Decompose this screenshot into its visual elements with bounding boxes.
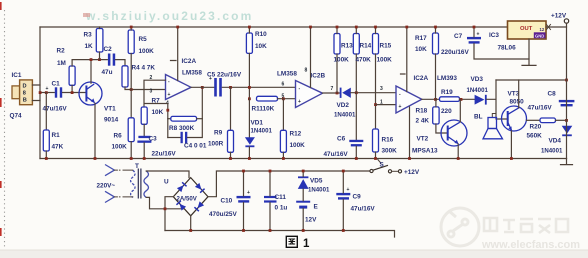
svg-text:VD1: VD1 — [251, 120, 264, 127]
svg-text:R12: R12 — [290, 131, 302, 138]
svg-text:10K: 10K — [152, 109, 164, 116]
transformer primary leads — [127, 170, 133, 197]
capacitor C8 — [559, 100, 575, 107]
svg-text:100K: 100K — [112, 144, 128, 151]
svg-text:100K: 100K — [139, 48, 155, 55]
resistor R15 — [373, 34, 379, 55]
wire R1 to ground — [45, 151, 47, 159]
capacitor C3 — [137, 136, 151, 143]
svg-text:47u/16V: 47u/16V — [351, 206, 376, 213]
node left corner path — [164, 207, 167, 210]
wire C6 ground — [355, 146, 357, 158]
node R15 top — [374, 26, 377, 29]
watermark logo circle bottom right — [441, 208, 479, 246]
svg-text:+: + — [347, 187, 350, 193]
svg-text:VT1: VT1 — [104, 106, 116, 113]
svg-text:E: E — [314, 204, 319, 211]
wire VD2 to comparator — [351, 92, 396, 94]
node E bottom — [302, 229, 305, 232]
node distribution right — [565, 79, 568, 82]
svg-text:LM393: LM393 — [437, 75, 457, 82]
wire bridge bottom corner — [190, 216, 192, 231]
wire R18 legs — [436, 99, 448, 133]
IC1 output stubs — [32, 85, 40, 101]
svg-text:R6: R6 — [114, 133, 123, 140]
regulator IC3 — [508, 21, 547, 39]
wire secondary bottom — [146, 197, 183, 208]
node R13 top — [336, 26, 339, 29]
svg-text:B: B — [23, 98, 27, 104]
resistor R14 — [353, 34, 359, 55]
svg-text:IC2A: IC2A — [182, 58, 197, 65]
svg-text:47u/16V: 47u/16V — [528, 105, 553, 112]
capacitor C2 — [108, 54, 115, 66]
svg-text:R20: R20 — [530, 124, 542, 131]
svg-text:IC1: IC1 — [12, 72, 22, 79]
svg-text:R14: R14 — [360, 43, 372, 50]
wire C1 to VT1 base — [63, 92, 87, 94]
wire to R1 — [45, 93, 47, 131]
svg-text:+: + — [247, 190, 250, 196]
node IC2A V+ rail — [176, 26, 179, 29]
svg-text:R10: R10 — [255, 31, 267, 38]
svg-text:IC2A: IC2A — [414, 75, 429, 82]
svg-text:C4 0 01: C4 0 01 — [184, 143, 207, 150]
node C3 ground — [143, 157, 146, 160]
resistor R12 — [280, 130, 286, 152]
svg-text:+: + — [46, 86, 49, 92]
transistor VT3 — [502, 106, 527, 131]
wire VD1 ground — [248, 147, 250, 159]
svg-text:Q74: Q74 — [10, 113, 23, 120]
svg-text:T: T — [135, 163, 139, 170]
svg-text:47u: 47u — [102, 69, 113, 76]
mains prong top — [105, 165, 114, 176]
svg-text:470K: 470K — [356, 57, 372, 64]
node collector junction — [90, 58, 93, 61]
bridge diode top-left — [177, 182, 187, 192]
capacitor C11 — [264, 196, 277, 203]
capacitor C5 — [209, 76, 222, 97]
wire C3 to ground — [143, 143, 145, 159]
svg-text:47u/16V: 47u/16V — [324, 151, 349, 158]
node divider tap — [374, 103, 377, 106]
node R2 base — [71, 91, 74, 94]
svg-text:2 4K: 2 4K — [416, 118, 430, 125]
node C11 top — [269, 170, 272, 173]
wire bridge right corner to supply rail — [208, 171, 370, 197]
transformer T primary — [131, 170, 136, 197]
svg-text:8: 8 — [23, 91, 26, 97]
resistor R6 — [128, 118, 134, 142]
wire comparator ground pin — [409, 107, 411, 159]
node feedback tap — [166, 109, 169, 112]
wire R19 to VD3 — [460, 98, 475, 100]
speaker BL — [483, 114, 503, 139]
svg-text:+12V: +12V — [551, 13, 567, 20]
node VT3 emitter ground — [510, 157, 513, 160]
comparator IC2A LM393 — [396, 86, 422, 113]
figure label box — [286, 236, 297, 247]
node comparator V+ rail — [405, 26, 408, 29]
svg-text:IC2B: IC2B — [311, 73, 326, 80]
svg-text:GND: GND — [535, 33, 544, 38]
resistor R13 — [334, 34, 340, 55]
node C9 bottom — [342, 229, 345, 232]
svg-text:100K: 100K — [377, 57, 393, 64]
svg-text:R16: R16 — [382, 137, 394, 144]
node R1 ground — [45, 157, 48, 160]
ground rail end tick — [561, 159, 573, 165]
wire feedback left branch — [144, 104, 168, 138]
wire R6 to ground — [130, 142, 132, 159]
svg-text:220u/16V: 220u/16V — [441, 49, 469, 56]
svg-text:100R: 100R — [208, 141, 224, 148]
svg-text:R19: R19 — [441, 89, 453, 96]
node bias divider — [130, 88, 133, 91]
node R6 ground — [130, 157, 133, 160]
wire C7 column — [474, 27, 529, 59]
svg-text:10K: 10K — [255, 43, 267, 50]
node R9 ground — [229, 157, 232, 160]
svg-text:VD4: VD4 — [549, 138, 562, 145]
svg-text:220: 220 — [441, 108, 452, 115]
terminal +12V — [564, 19, 568, 23]
wire C11 column — [269, 171, 271, 231]
svg-text:C9: C9 — [353, 194, 362, 201]
svg-text:470u/25V: 470u/25V — [209, 211, 237, 218]
wire VT3 emitter ground — [510, 131, 512, 159]
node R13 bottom — [336, 92, 339, 95]
bridge diode bottom-right — [194, 201, 204, 211]
bridge diode bottom-left — [176, 200, 186, 210]
wire C4 left — [168, 137, 180, 139]
node VT2 emitter ground — [457, 157, 460, 160]
wire minus input — [144, 80, 166, 107]
resistor R18 — [433, 107, 439, 124]
svg-text:C7: C7 — [454, 33, 463, 40]
svg-text:+: + — [399, 104, 402, 110]
svg-text:LM358: LM358 — [182, 70, 202, 77]
svg-text:1K: 1K — [85, 43, 94, 50]
svg-text:R15: R15 — [380, 43, 392, 50]
svg-text:78L06: 78L06 — [498, 45, 517, 52]
wire C2 to R4 — [116, 60, 126, 66]
wire C9 column — [342, 171, 344, 231]
wire IC2A output — [191, 86, 214, 88]
wire right edge column — [566, 23, 568, 158]
node R9 top — [229, 86, 232, 89]
transformer T secondary — [144, 171, 149, 197]
wire comparator output — [422, 98, 440, 100]
svg-text:C2: C2 — [104, 46, 113, 53]
op-amp IC2B — [296, 81, 323, 108]
junction x mark — [547, 25, 551, 30]
node IC2B V+ rail — [309, 26, 312, 29]
svg-text:R1110K: R1110K — [252, 106, 275, 113]
svg-text:www.elecfans.com: www.elecfans.com — [481, 239, 580, 251]
wire IC2B V+ — [310, 27, 312, 88]
resistor R17 — [433, 33, 439, 54]
svg-text:1: 1 — [303, 238, 310, 250]
wire R9 ground — [230, 152, 232, 158]
svg-text:VD3: VD3 — [471, 76, 484, 83]
resistor R7 — [141, 107, 147, 124]
wire +12V distribution line — [496, 79, 567, 81]
wire secondary top to bridge — [146, 171, 189, 178]
wire R11 right to IC2B — [278, 98, 296, 100]
svg-text:VT3: VT3 — [508, 91, 520, 98]
wire VD5 E column — [302, 171, 304, 231]
node C9 top — [342, 170, 345, 173]
node VT1 emitter ground — [94, 157, 97, 160]
svg-text:8: 8 — [305, 68, 308, 74]
capacitor C10 — [237, 190, 251, 203]
node C10 bottom — [242, 229, 245, 232]
svg-text:R13: R13 — [341, 43, 353, 50]
svg-text:R18: R18 — [416, 108, 428, 115]
wire VD1 column — [248, 99, 250, 138]
svg-text:VD2: VD2 — [337, 102, 350, 109]
transformer core — [138, 169, 141, 199]
wire VT1 emitter to ground — [94, 103, 96, 158]
page edge dotted line — [4, 10, 6, 248]
svg-text:1N4001: 1N4001 — [541, 148, 563, 155]
page edge red dashes — [0, 2, 2, 236]
wire R8 left — [168, 118, 171, 120]
supply bottom rail — [165, 231, 395, 238]
svg-text:12V: 12V — [305, 217, 317, 224]
node R17 R18 output — [434, 98, 437, 101]
resistor R16 — [373, 129, 379, 152]
wire VT3 to R20 — [527, 119, 541, 121]
wire R12 column — [282, 99, 284, 131]
diode VD5 — [298, 176, 309, 189]
wire R8 right — [197, 118, 203, 120]
watermark CJK text — [484, 218, 568, 233]
node R16 ground — [374, 157, 377, 160]
svg-text:R17: R17 — [415, 35, 427, 42]
svg-text:IC3: IC3 — [489, 32, 499, 39]
wire R5 to R6 column — [130, 27, 132, 118]
wire R17 column — [435, 27, 437, 99]
wire VT3 collector — [518, 80, 520, 108]
svg-text:100K: 100K — [334, 57, 350, 64]
svg-text:+: + — [168, 92, 171, 98]
svg-text:+: + — [298, 99, 301, 105]
resistor R11 — [257, 96, 278, 101]
wire C10 column — [243, 171, 245, 231]
svg-text:C6: C6 — [337, 136, 346, 143]
node C6 ground — [355, 157, 358, 160]
node R12 ground — [282, 157, 285, 160]
node R11 left — [248, 97, 251, 100]
svg-text:1M: 1M — [57, 60, 66, 67]
node R20 right — [565, 119, 568, 122]
svg-text:6: 6 — [282, 82, 285, 88]
node C11 bottom — [269, 229, 272, 232]
node R14 C6 — [355, 91, 358, 94]
transistor VT1 — [79, 82, 102, 105]
svg-text:C11: C11 — [275, 194, 287, 201]
node R5 top — [130, 26, 133, 29]
svg-text:R2: R2 — [57, 48, 66, 55]
svg-text:R3: R3 — [84, 32, 93, 39]
svg-text:10K: 10K — [415, 46, 427, 53]
transistor VT2 — [441, 120, 467, 146]
node VT2 collector junction — [460, 98, 463, 101]
svg-text:C5 22u/16V: C5 22u/16V — [207, 72, 242, 79]
node R11 IC2B — [282, 97, 285, 100]
node VD1 ground — [248, 157, 251, 160]
wire R4 bottom to plus input — [125, 87, 166, 90]
svg-text:1: 1 — [380, 100, 383, 106]
resistor R20 — [540, 118, 556, 123]
svg-text:100K: 100K — [290, 142, 306, 149]
svg-text:9014: 9014 — [104, 117, 119, 124]
resistor R2 — [69, 66, 75, 85]
bridge rectifier U diamond — [173, 178, 208, 216]
wire VT1 collector — [90, 60, 92, 84]
wire comparator V+ — [401, 27, 407, 92]
node R10 signal cross — [248, 86, 251, 89]
wire divider to comparator — [376, 104, 397, 106]
svg-text:C1: C1 — [52, 81, 61, 88]
switch S — [370, 160, 402, 173]
diode VD2 — [340, 88, 351, 98]
svg-text:C3: C3 — [149, 136, 158, 143]
svg-text:1N4001: 1N4001 — [334, 112, 356, 119]
node R14 top — [355, 26, 358, 29]
main +V top rail — [40, 26, 508, 28]
wire R12 ground — [282, 152, 284, 158]
capacitor C6 — [349, 140, 363, 147]
wire R20 to right column — [556, 119, 567, 121]
svg-text:w.shziuiy.ou2u23.com: w.shziuiy.ou2u23.com — [85, 9, 253, 23]
node feedback output — [201, 86, 204, 89]
wire R2 bottom to base — [71, 85, 73, 92]
wire prongs to primary — [114, 170, 127, 197]
node comparator ground — [408, 157, 411, 160]
wire R14 column — [355, 27, 357, 140]
svg-text:C10: C10 — [221, 198, 233, 205]
svg-text:R8 300K: R8 300K — [169, 125, 195, 132]
svg-text:7: 7 — [331, 86, 334, 92]
wire R16 ground — [375, 152, 377, 159]
resistor R19 — [440, 97, 460, 102]
resistor R1 — [43, 130, 49, 151]
wire VD3 to node — [487, 80, 508, 119]
wire VT2 emitter ground — [457, 144, 459, 159]
svg-text:R9: R9 — [214, 130, 223, 137]
svg-text:3: 3 — [150, 89, 153, 95]
svg-text:3: 3 — [380, 86, 383, 92]
svg-text:LM358: LM358 — [277, 71, 297, 78]
wire R10 column — [248, 27, 250, 99]
mains prong bottom — [105, 191, 114, 202]
op-amp IC2A — [166, 75, 192, 100]
svg-text:BL: BL — [474, 114, 483, 121]
wire C4 right — [188, 87, 203, 137]
svg-text:MPSA13: MPSA13 — [412, 148, 438, 155]
svg-text:C8: C8 — [548, 91, 557, 98]
wire IC3 input — [546, 26, 567, 28]
node bridge bottom rail — [189, 229, 192, 232]
node R3 bottom junction — [98, 58, 101, 61]
svg-text:+12V: +12V — [404, 169, 420, 176]
wire R9 column — [230, 87, 232, 130]
capacitor C1 — [46, 86, 63, 98]
diode VD1 — [245, 137, 255, 147]
svg-text:VD5: VD5 — [310, 178, 323, 185]
resistor R8 — [171, 116, 197, 121]
wire R3 legs — [99, 27, 101, 60]
wire R13 column — [336, 27, 338, 93]
node R1 top — [45, 91, 48, 94]
svg-text:1N4001: 1N4001 — [251, 128, 273, 135]
svg-text:47K: 47K — [52, 144, 64, 151]
capacitor C7 — [467, 32, 481, 44]
resistor R9 — [228, 130, 234, 152]
node on border — [39, 91, 42, 94]
svg-text:OUT: OUT — [520, 26, 533, 32]
left border wire — [39, 27, 41, 159]
svg-text:1N4001: 1N4001 — [467, 87, 489, 94]
svg-text:1N4001: 1N4001 — [308, 187, 330, 194]
svg-text:VT2: VT2 — [417, 136, 429, 143]
svg-text:220V~: 220V~ — [97, 183, 116, 190]
svg-text:8050: 8050 — [510, 99, 525, 106]
node R10 top — [248, 26, 251, 29]
wire VT2 collector — [459, 99, 461, 122]
wire R7 to C3 — [143, 124, 145, 135]
svg-text:0 1u: 0 1u — [275, 205, 288, 212]
resistor R10 — [246, 33, 252, 53]
svg-text:5: 5 — [282, 94, 285, 100]
node C7 rail — [473, 26, 476, 29]
IC1 electret sensor — [12, 80, 32, 105]
wire IC1 to C1 — [40, 92, 54, 94]
wire C5 to IC2B — [222, 86, 295, 88]
svg-text:D: D — [23, 84, 27, 90]
resistor R4 — [122, 66, 128, 87]
battery E — [296, 201, 310, 209]
wire IC2A V+ — [171, 27, 178, 81]
wire R15 R16 column — [375, 27, 377, 129]
resistor R5 — [128, 30, 134, 54]
svg-text:+: + — [477, 32, 480, 38]
node C10 top — [242, 170, 245, 173]
ground rail — [40, 158, 567, 160]
resistor R3 — [96, 29, 103, 53]
diode VD3 — [475, 95, 487, 105]
svg-text:R4 4 7K: R4 4 7K — [132, 65, 156, 72]
svg-text:12: 12 — [540, 27, 545, 32]
svg-text:S: S — [380, 162, 385, 169]
svg-text:R1: R1 — [52, 132, 61, 139]
wire R2 top — [72, 60, 107, 66]
wire IC2B output — [323, 92, 341, 94]
svg-text:300K: 300K — [382, 148, 398, 155]
diode VD4 — [562, 126, 573, 136]
capacitor C9 — [336, 187, 350, 200]
svg-text:22u/16V: 22u/16V — [152, 151, 177, 158]
svg-text:R5: R5 — [139, 36, 148, 43]
wire bridge left corner — [165, 197, 173, 231]
node R17 top — [434, 26, 437, 29]
wire IC3 ground pin — [522, 39, 536, 65]
svg-text:U: U — [164, 179, 169, 186]
